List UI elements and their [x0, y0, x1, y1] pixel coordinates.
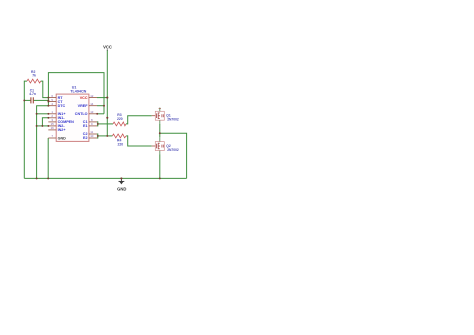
junction DTC pin: [47, 105, 49, 107]
capacitor C1: [29, 89, 36, 104]
svg-text:VCC: VCC: [103, 45, 112, 50]
svg-text:IN2+: IN2+: [58, 128, 66, 132]
junction ground column on rail: [36, 177, 38, 179]
svg-text:14: 14: [90, 102, 94, 106]
junction IN1- pin: [47, 117, 49, 119]
junction IN1+ on ground column: [36, 113, 38, 115]
wire DTC to ground column: [37, 106, 49, 179]
wire VCC pin 12: [97, 97, 107, 99]
junction output1 tie: [97, 123, 99, 125]
junction VCC pin on VCC rail: [106, 97, 108, 99]
wire R3 to Q1 gate: [126, 116, 152, 124]
svg-text:GND: GND: [58, 136, 67, 140]
resistor R4: [112, 134, 126, 147]
junction IN1+ pin: [47, 113, 49, 115]
svg-text:DTC: DTC: [58, 104, 66, 108]
svg-text:10: 10: [90, 134, 94, 138]
svg-text:12: 12: [90, 94, 94, 98]
svg-text:VREF: VREF: [78, 104, 89, 108]
wire IN1+: [37, 113, 49, 115]
wire CNTLO pin to loop: [97, 113, 104, 115]
wire R2 left lead and left rail down to ground: [24, 81, 27, 178]
wire C1 right: [34, 99, 49, 101]
junction VREF wire on loop: [103, 105, 105, 107]
wire C1 left: [24, 99, 30, 101]
wire R4 to Q2 gate: [126, 136, 151, 146]
wire IN1-: [42, 118, 48, 126]
wire R2 right lead to RT: [41, 81, 49, 98]
wire RT-CT-DTC tie column: [47, 98, 49, 106]
wire C1/E1 output tie: [96, 122, 99, 126]
svg-text:GND: GND: [117, 186, 126, 191]
U1 left pin stubs: [48, 98, 56, 138]
svg-text:E2: E2: [83, 136, 88, 140]
svg-text:4.7n: 4.7n: [29, 92, 36, 96]
U1 left pin numbers: [51, 94, 55, 138]
svg-text:16: 16: [51, 126, 55, 130]
svg-text:220: 220: [117, 117, 123, 121]
wire output1 to R3: [98, 123, 113, 125]
svg-text:VCC: VCC: [80, 96, 88, 100]
resistor R2: [27, 70, 41, 83]
wire IN2-: [37, 125, 49, 127]
U1 right pin stubs: [89, 98, 97, 138]
junction node A on VCC rail: [106, 117, 108, 119]
wire Q2 source down: [159, 154, 161, 178]
wire VREF pin to loop: [97, 105, 104, 107]
wire Q1 source down: [159, 124, 161, 133]
junction IN2- pin: [47, 125, 49, 127]
junction IN2- on ground column: [36, 125, 38, 127]
U1 left pin names: [58, 96, 75, 141]
junction output2 tie: [97, 135, 99, 137]
VCC supply symbol: [103, 45, 112, 51]
junction VCC rail to output2 node: [106, 135, 108, 137]
junction RT pin / R2 / VREF loop: [47, 97, 49, 99]
transistor Q2 2N7002: [152, 137, 179, 154]
junction IN1- ties IN2- wire: [41, 125, 43, 127]
op-amp U1 TL494CN body: [56, 86, 89, 142]
wire output2 to R4: [98, 135, 113, 137]
junction CNTLO pin end: [96, 113, 98, 115]
junction GND symbol on rail: [120, 177, 122, 179]
junction CT pin: [47, 101, 49, 103]
svg-text:13: 13: [90, 110, 94, 114]
wire Q1 source to right rail: [160, 133, 187, 178]
junction U1 GND on rail: [47, 177, 49, 179]
transistor Q1 2N7002: [152, 108, 179, 125]
wire VREF/CNTLO top loop: [48, 73, 104, 114]
wire ground rail: [24, 177, 186, 179]
junction Q1 source / Q2 drain: [159, 132, 161, 134]
U1 right pin names: [75, 96, 88, 140]
svg-text:2N7002: 2N7002: [167, 148, 179, 152]
junction Q2 source on rail: [159, 177, 161, 179]
svg-text:220: 220: [118, 143, 124, 147]
wire Q2 drain up: [159, 133, 161, 137]
svg-text:CNTLO: CNTLO: [75, 112, 88, 116]
svg-text:TL494CN: TL494CN: [70, 89, 86, 93]
U1 right pin numbers: [90, 94, 94, 138]
svg-text:7k: 7k: [32, 74, 36, 78]
wire VCC rail vertical: [106, 51, 108, 136]
wire C2/E2 output tie: [96, 134, 99, 138]
junction C1 left on rail: [23, 99, 25, 101]
ground symbol: [117, 178, 126, 191]
resistor R3: [113, 113, 126, 126]
svg-text:E1: E1: [83, 124, 88, 128]
svg-text:2N7002: 2N7002: [167, 118, 179, 122]
wire GND pin down: [47, 138, 49, 178]
junction C1 wire on RT-CT column: [47, 99, 49, 101]
